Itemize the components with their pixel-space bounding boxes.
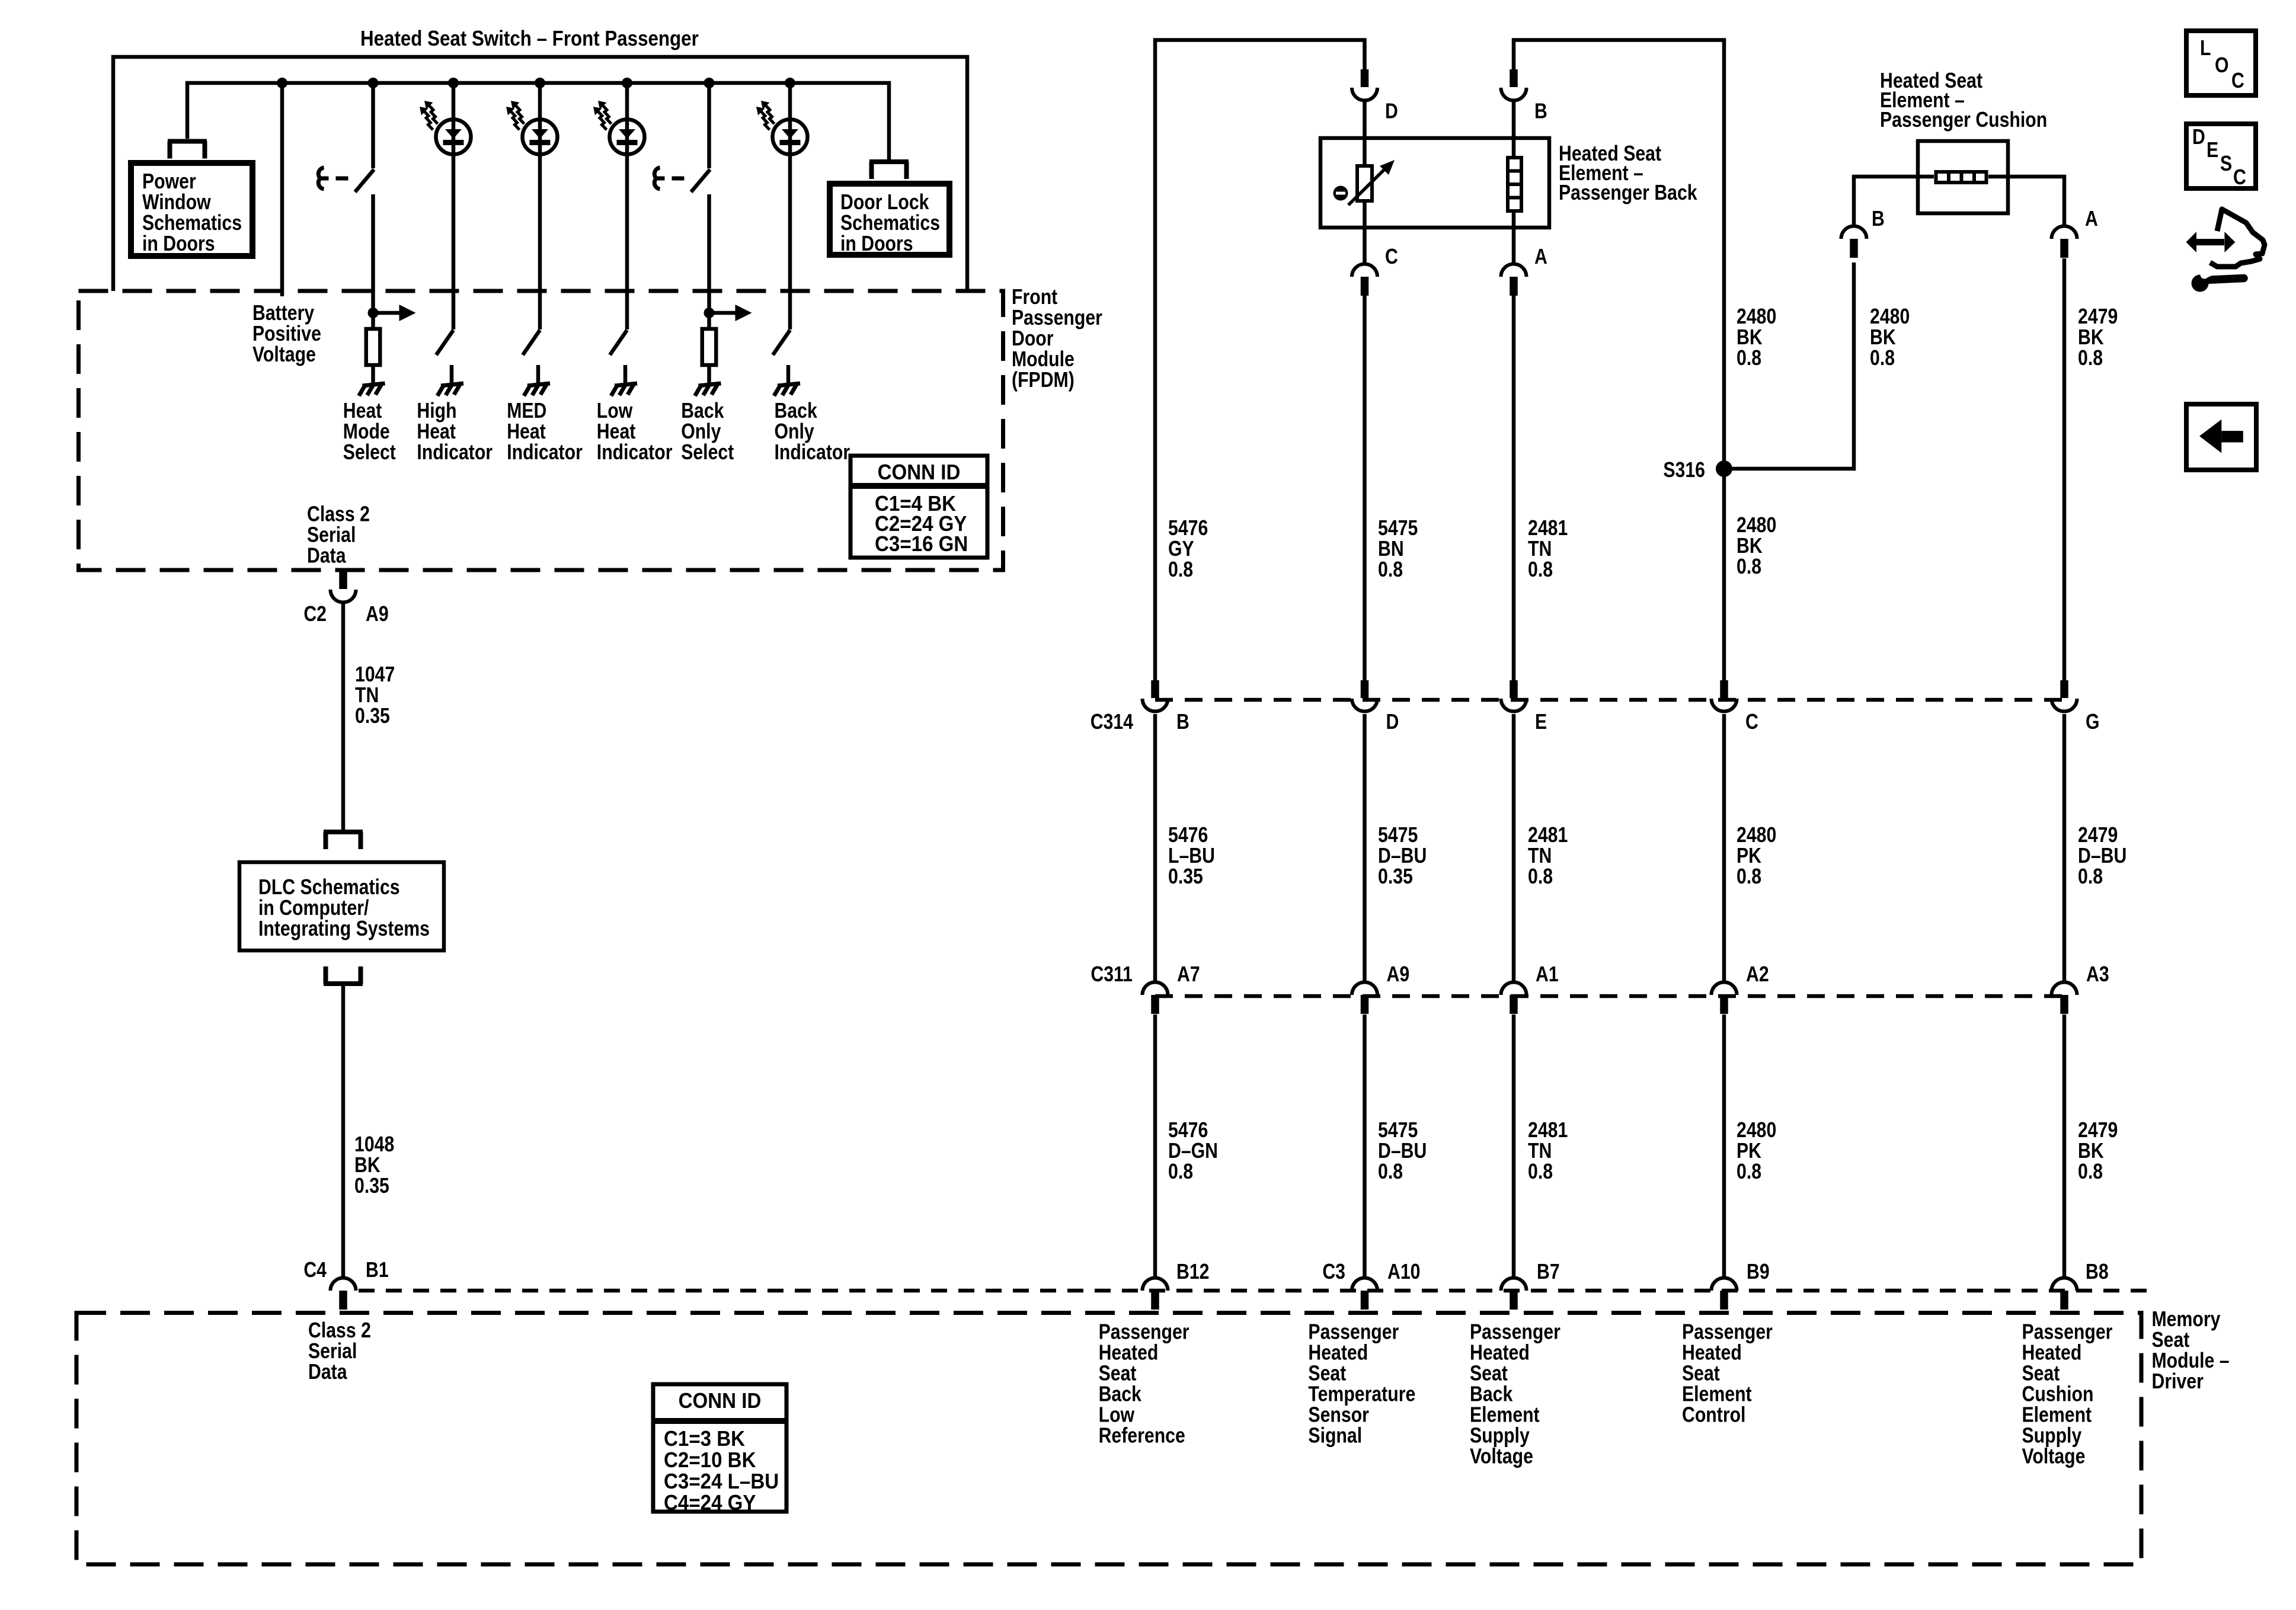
wire 5476 from C314 B up and over to D <box>1155 40 1365 681</box>
svg-text:0.8: 0.8 <box>2078 865 2103 889</box>
resistor R2 back only select <box>707 313 711 327</box>
bus junction node x=1196.5 <box>704 78 715 88</box>
svg-text:0.8: 0.8 <box>1528 865 1553 889</box>
svg-text:C1=3 BK: C1=3 BK <box>664 1427 745 1451</box>
svg-text:C: C <box>1385 245 1398 269</box>
memory seat module dashed box <box>76 1313 2141 1565</box>
svg-text:0.35: 0.35 <box>1378 865 1413 889</box>
svg-text:E: E <box>2207 139 2218 162</box>
switch back only indicator blade <box>773 330 790 355</box>
wire 5475 BN segment <box>1363 296 1367 680</box>
svg-text:A9: A9 <box>1387 963 1410 987</box>
wire 2481 TN segment <box>1512 296 1516 680</box>
svg-text:B12: B12 <box>1176 1260 1209 1284</box>
svg-text:C311: C311 <box>1091 963 1133 987</box>
LOC icon box <box>2186 31 2256 95</box>
back only indicator stub <box>786 365 791 383</box>
svg-text:0.8: 0.8 <box>1737 865 1761 889</box>
svg-text:Voltage: Voltage <box>1470 1445 1533 1468</box>
connector MSM pin B7 <box>1501 1278 1527 1291</box>
LED med heat indicator <box>523 120 558 155</box>
connector A <box>1501 264 1527 277</box>
svg-text:Signal: Signal <box>1308 1424 1362 1448</box>
wire segment C311 to MSM <box>1512 1014 1516 1278</box>
svg-text:L: L <box>2200 37 2211 60</box>
wire segment C311 to MSM <box>1153 1014 1157 1278</box>
DESC icon box <box>2186 124 2256 190</box>
svg-text:Data: Data <box>308 1361 347 1384</box>
connector C2/A9 <box>339 571 347 589</box>
wire below element <box>1512 213 1516 264</box>
svg-text:0.8: 0.8 <box>1737 347 1761 370</box>
svg-text:B: B <box>1872 207 1885 231</box>
connector C314 pin E <box>1510 680 1518 698</box>
ground back only indicator <box>778 383 800 386</box>
svg-text:Select: Select <box>343 441 396 465</box>
battery positive voltage wire <box>280 83 284 296</box>
svg-text:0.8: 0.8 <box>2078 347 2103 370</box>
wire segment C314 to C311 <box>1153 714 1157 982</box>
connector C311 pin A2 <box>1712 982 1737 996</box>
wire 2481 from B over and down <box>1514 40 1724 70</box>
heated seat element passenger cushion box <box>1918 141 2008 213</box>
LED back only indicator <box>773 120 808 155</box>
svg-text:Indicator: Indicator <box>417 441 493 465</box>
svg-text:0.8: 0.8 <box>1168 558 1193 582</box>
heated seat switch box <box>113 57 967 291</box>
LED back only indicator wire <box>788 83 792 329</box>
switch S1 heat mode select: upper wire <box>371 83 375 168</box>
connector B <box>1510 69 1518 87</box>
connector staple to Door Lock <box>869 159 909 164</box>
svg-text:C2: C2 <box>303 603 327 626</box>
svg-text:D: D <box>2192 126 2205 149</box>
svg-text:0.8: 0.8 <box>1528 558 1553 582</box>
switch low lower stub <box>623 365 628 383</box>
switch med heat indicator blade <box>523 330 540 355</box>
switch S1 lower wire <box>371 194 375 313</box>
bus junction node x=629.5 <box>368 78 379 88</box>
svg-text:C: C <box>1745 710 1758 734</box>
ground med <box>527 383 550 386</box>
connector D <box>1361 69 1369 87</box>
Power Window Schematics box <box>131 163 252 256</box>
wire 2480 BK main segment <box>1722 69 1726 680</box>
svg-text:0.35: 0.35 <box>354 1174 389 1198</box>
connector staple to Power Window <box>168 139 207 144</box>
thermistor (temperature sensor) <box>1357 166 1372 201</box>
svg-text:B: B <box>1534 100 1547 123</box>
svg-text:0.8: 0.8 <box>1870 347 1895 370</box>
svg-text:A: A <box>2085 207 2098 231</box>
svg-text:0.35: 0.35 <box>1168 865 1203 889</box>
svg-text:in Doors: in Doors <box>840 232 913 256</box>
svg-text:O: O <box>2215 54 2229 78</box>
LED low heat indicator <box>610 120 645 155</box>
CONN ID table (MSM) <box>653 1384 786 1515</box>
svg-text:0.8: 0.8 <box>2078 1160 2103 1184</box>
svg-text:C4: C4 <box>303 1259 327 1282</box>
svg-text:CONN ID: CONN ID <box>878 461 961 485</box>
switch S2 blade <box>691 169 710 192</box>
svg-text:Driver: Driver <box>2152 1370 2204 1394</box>
cushion wire right <box>1988 177 2064 226</box>
splice S316 <box>1716 460 1732 477</box>
ground high <box>441 383 463 386</box>
wire 1048 BK <box>341 984 346 1278</box>
switch S1 blade <box>355 169 374 192</box>
svg-text:Indicator: Indicator <box>775 441 850 465</box>
wire into back element (D side) <box>1363 102 1367 164</box>
wire segment C314 to C311 <box>2062 714 2067 982</box>
svg-text:Passenger Cushion: Passenger Cushion <box>1880 108 2047 132</box>
heated seat element passenger back box <box>1320 138 1549 228</box>
svg-text:Control: Control <box>1682 1403 1745 1427</box>
wire segment C311 to MSM <box>2062 1014 2067 1278</box>
switch high heat indicator blade <box>436 330 453 355</box>
svg-text:Select: Select <box>681 441 734 465</box>
svg-text:0.8: 0.8 <box>1737 1160 1761 1184</box>
connector C311 pin A9 <box>1352 982 1377 996</box>
connector C314 pin G <box>2060 680 2068 698</box>
svg-text:C4=24 GY: C4=24 GY <box>664 1491 756 1515</box>
bus junction node x=1333 <box>785 78 795 88</box>
connector C314 pin C <box>1720 680 1728 698</box>
switch S2 contact arc <box>654 168 660 189</box>
resistor R1 heat mode select <box>371 313 375 327</box>
bus wire <box>187 83 889 159</box>
svg-text:E: E <box>1535 710 1547 734</box>
DLC Schematics box <box>239 862 444 950</box>
svg-text:0.8: 0.8 <box>1378 558 1403 582</box>
svg-text:A7: A7 <box>1177 963 1200 987</box>
wire below thermistor <box>1363 203 1367 264</box>
connector C314 pin B <box>1151 680 1159 698</box>
back arrow icon box <box>2186 404 2256 470</box>
svg-text:C2=10 BK: C2=10 BK <box>664 1449 756 1473</box>
connector C314 pin D <box>1361 680 1369 698</box>
wire segment C311 to MSM <box>1363 1014 1367 1278</box>
Door Lock Schematics box <box>830 184 949 255</box>
connector MSM pin B12 <box>1143 1278 1168 1291</box>
svg-text:B9: B9 <box>1747 1260 1770 1284</box>
switch S2 back only select: upper wire <box>707 83 711 168</box>
connector C311 pin A1 <box>1501 982 1527 996</box>
bus junction node x=911 <box>535 78 545 88</box>
switch med lower stub <box>536 365 541 383</box>
connector B (cushion) <box>1841 226 1867 239</box>
bus junction node x=765 <box>448 78 459 88</box>
svg-text:A2: A2 <box>1746 963 1769 987</box>
svg-text:D: D <box>1386 710 1399 734</box>
switch low heat indicator blade <box>610 330 627 355</box>
cushion wire left <box>1854 177 1934 226</box>
svg-text:0.35: 0.35 <box>355 705 390 728</box>
node: back only select junction <box>704 308 715 318</box>
svg-text:C3: C3 <box>1322 1260 1345 1284</box>
svg-text:A: A <box>1534 245 1547 269</box>
connector C4/B1 <box>331 1278 356 1291</box>
staple below DLC box <box>324 981 363 986</box>
svg-text:B7: B7 <box>1537 1260 1560 1284</box>
svg-text:S316: S316 <box>1663 459 1705 482</box>
svg-text:Integrating Systems: Integrating Systems <box>258 917 430 941</box>
svg-text:CONN ID: CONN ID <box>679 1390 762 1413</box>
connector row C314 dashed line <box>1155 698 2064 702</box>
svg-text:B8: B8 <box>2086 1260 2109 1284</box>
svg-text:Voltage: Voltage <box>252 343 316 367</box>
component view icon (car outline, double arrow, wrench) <box>2186 209 2265 292</box>
staple to DLC box <box>324 830 363 834</box>
svg-text:(FPDM): (FPDM) <box>1012 369 1075 392</box>
signal arrow heat mode select <box>373 311 401 315</box>
svg-text:A3: A3 <box>2086 963 2109 987</box>
connector A (cushion) <box>2052 226 2077 239</box>
wire 1047 TN <box>341 604 346 833</box>
svg-text:A1: A1 <box>1536 963 1559 987</box>
wire 2479 BK segment <box>2062 258 2067 680</box>
connector C311 pin A3 <box>2052 982 2077 996</box>
svg-text:Passenger Back: Passenger Back <box>1559 181 1697 205</box>
svg-text:0.8: 0.8 <box>1168 1160 1193 1184</box>
connector C311 pin A7 <box>1143 982 1168 996</box>
wire segment C314 to C311 <box>1722 714 1726 982</box>
wire segment C314 to C311 <box>1512 714 1516 982</box>
svg-text:Indicator: Indicator <box>597 441 673 465</box>
CONN ID table (FPDM) <box>850 456 987 558</box>
connector C <box>1352 264 1377 277</box>
svg-text:S: S <box>2220 152 2232 176</box>
bus junction node x=1058 <box>622 78 632 88</box>
svg-text:Reference: Reference <box>1099 1424 1185 1448</box>
bus junction node x=476 <box>277 78 287 88</box>
svg-text:0.8: 0.8 <box>1737 555 1761 579</box>
svg-text:0.8: 0.8 <box>1378 1160 1403 1184</box>
node: heat mode select junction <box>368 308 379 318</box>
wire segment C311 to MSM <box>1722 1014 1726 1278</box>
svg-text:Indicator: Indicator <box>507 441 583 465</box>
ground G1 <box>363 383 385 386</box>
svg-text:G: G <box>2086 710 2100 734</box>
svg-text:B1: B1 <box>366 1259 389 1282</box>
switch S2 lower wire <box>707 194 711 313</box>
wire segment C314 to C311 <box>1363 714 1367 982</box>
svg-text:Heated Seat Switch – Front Pas: Heated Seat Switch – Front Passenger <box>360 27 699 51</box>
LED low heat indicator wire <box>625 83 629 329</box>
svg-text:B: B <box>1176 710 1189 734</box>
svg-text:0.8: 0.8 <box>1528 1160 1553 1184</box>
wire into back element (B side) <box>1512 102 1516 157</box>
switch S1 contact arc <box>318 168 324 189</box>
switch high lower stub <box>450 365 454 383</box>
LED high heat indicator <box>436 120 471 155</box>
svg-text:C314: C314 <box>1091 710 1134 734</box>
S316 branch wire <box>1724 263 1854 469</box>
module connector dotted line <box>359 1289 2148 1293</box>
svg-text:Data: Data <box>307 544 346 568</box>
svg-text:in Doors: in Doors <box>142 232 215 256</box>
ground low <box>615 383 637 386</box>
svg-text:C: C <box>2231 69 2244 93</box>
svg-text:D: D <box>1385 100 1398 123</box>
LED med heat indicator wire <box>538 83 542 329</box>
svg-text:C: C <box>2233 166 2246 190</box>
svg-text:A9: A9 <box>366 603 389 626</box>
ground G2 <box>699 383 721 386</box>
svg-text:Voltage: Voltage <box>2022 1445 2086 1468</box>
svg-text:C3=24 L–BU: C3=24 L–BU <box>664 1470 779 1494</box>
connector MSM pin B9 <box>1712 1278 1737 1291</box>
LED high heat indicator wire <box>452 83 456 329</box>
svg-text:C3=16 GN: C3=16 GN <box>875 533 968 556</box>
heating element (back) <box>1508 158 1521 211</box>
svg-text:A10: A10 <box>1387 1260 1420 1284</box>
connector MSM pin B8 <box>2052 1278 2077 1291</box>
connector MSM pin A10 <box>1352 1278 1377 1291</box>
FPDM module dashed box <box>79 291 1003 570</box>
heating element (cushion) <box>1936 172 1987 183</box>
connector row C311 dashed line <box>1155 994 2064 998</box>
signal arrow back only select <box>709 311 737 315</box>
minus symbol <box>1334 186 1348 201</box>
